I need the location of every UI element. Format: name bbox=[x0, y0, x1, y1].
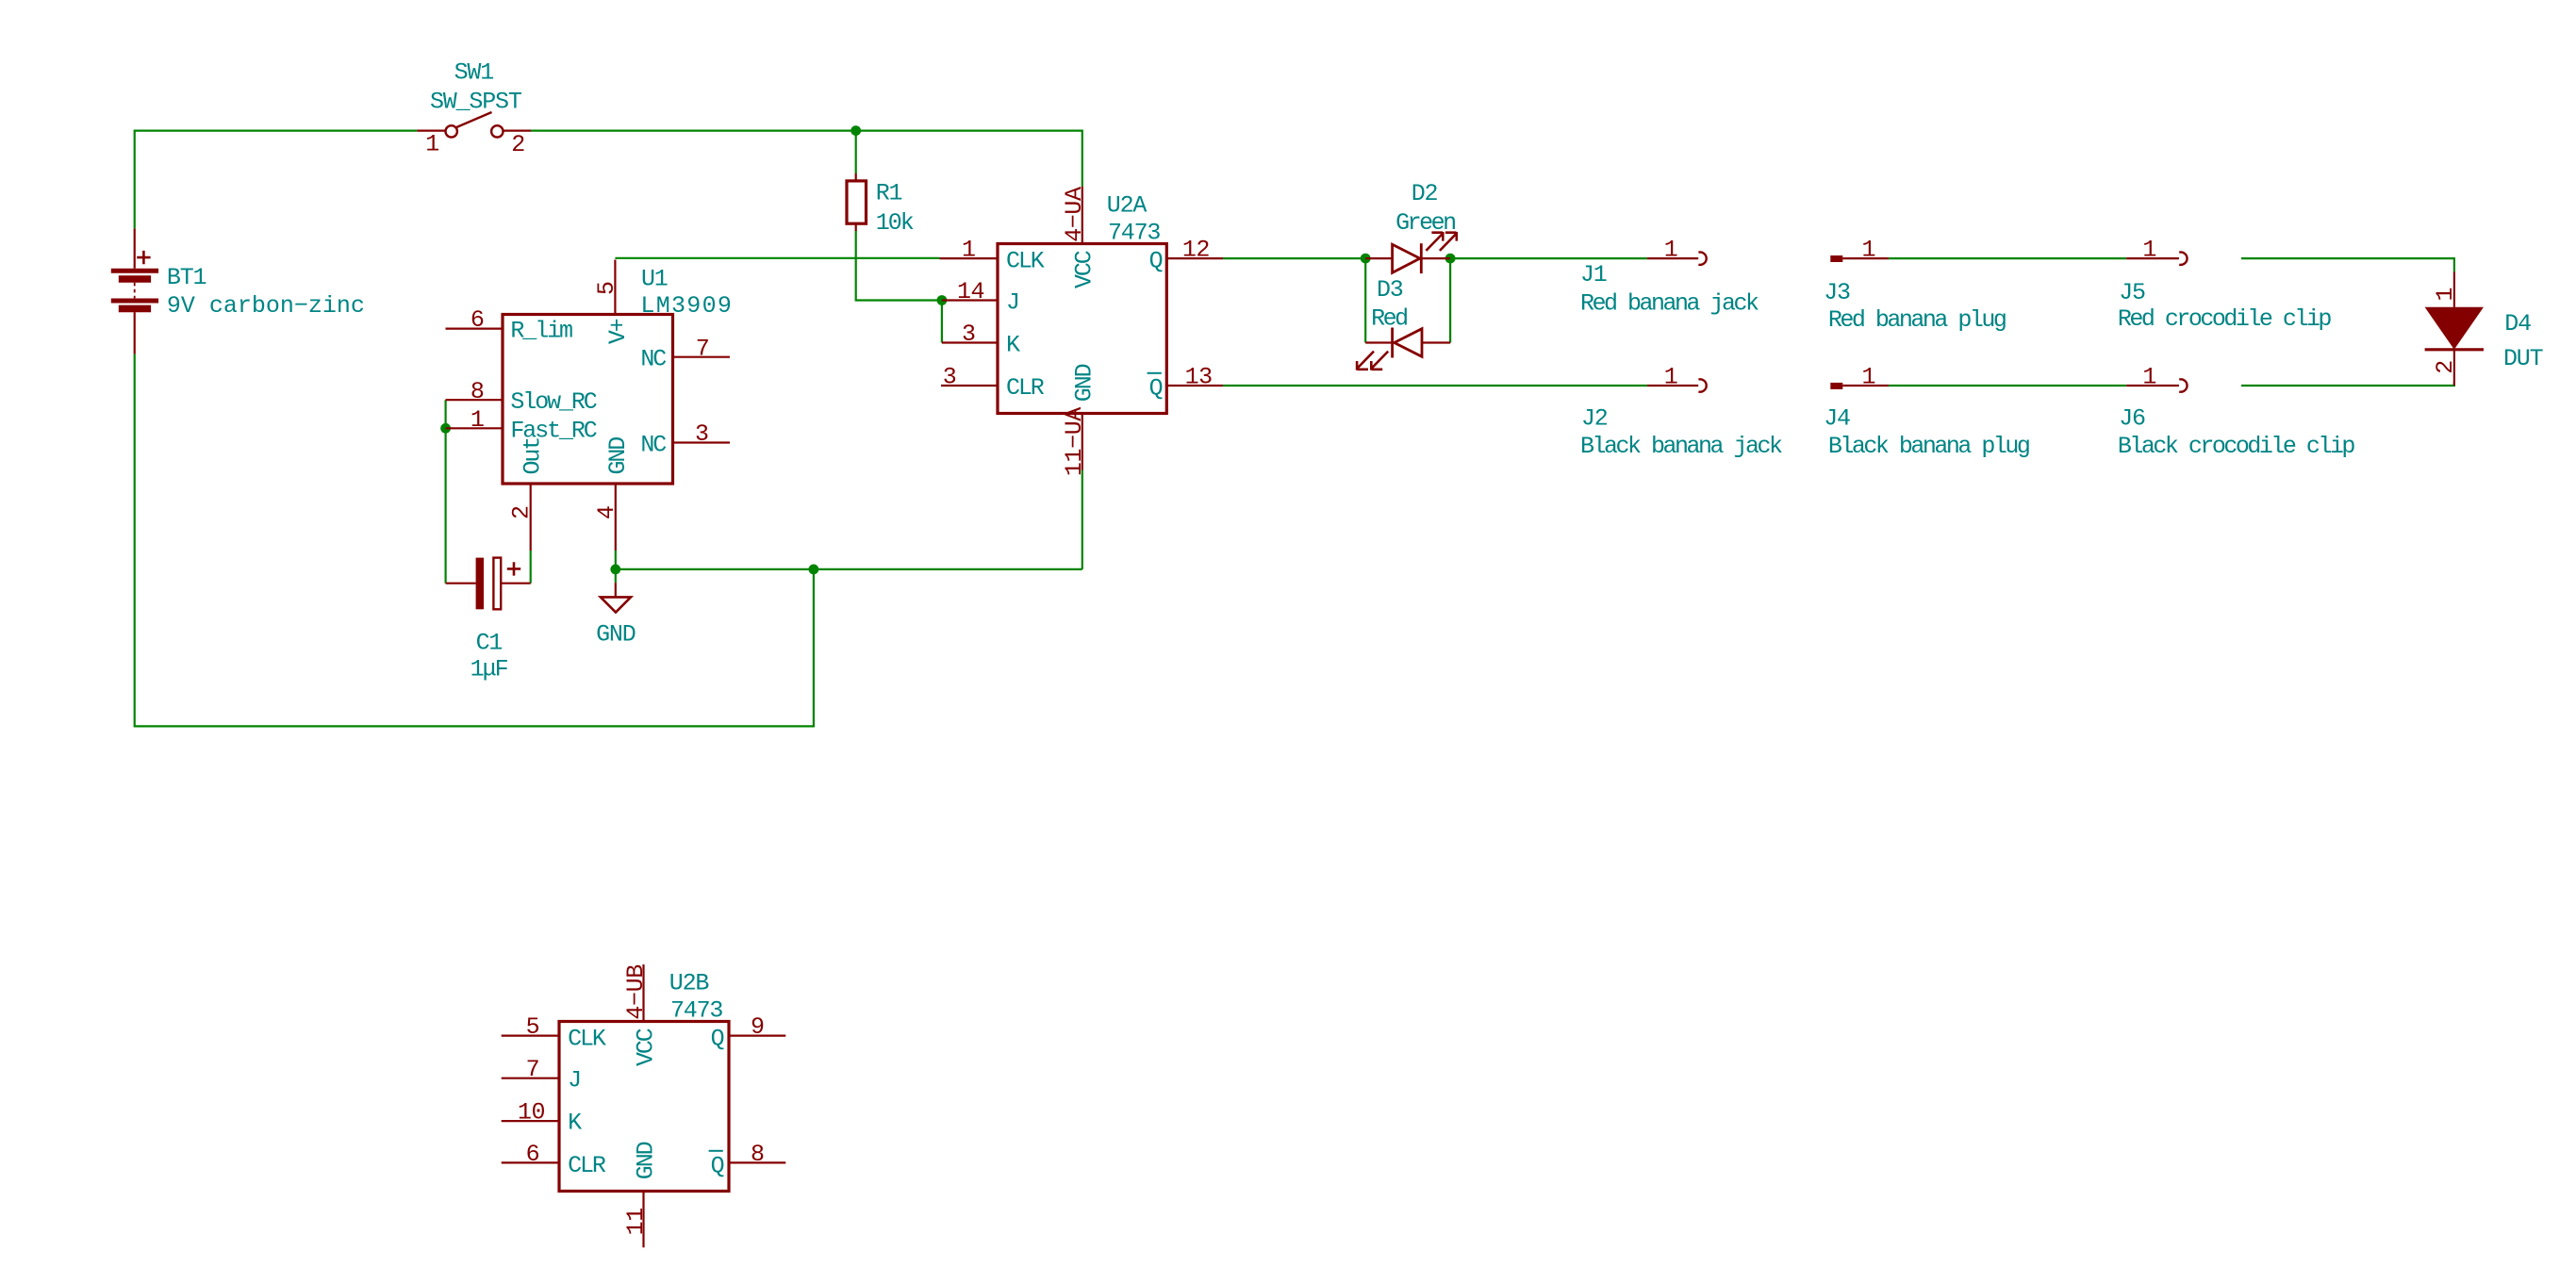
svg-text:7: 7 bbox=[526, 1056, 540, 1083]
svg-text:8: 8 bbox=[751, 1141, 765, 1168]
svg-text:J5: J5 bbox=[2119, 279, 2145, 306]
svg-text:Red: Red bbox=[1371, 305, 1407, 333]
wire U1 pin 2 to C1 bbox=[530, 551, 532, 584]
junction U1 Fast_RC node bbox=[440, 423, 451, 434]
svg-text:Q: Q bbox=[1149, 247, 1163, 274]
svg-text:CLR: CLR bbox=[568, 1152, 606, 1179]
svg-text:CLK: CLK bbox=[568, 1025, 606, 1052]
node B (D2 cathode) bbox=[1445, 254, 1456, 264]
svg-text:3: 3 bbox=[695, 420, 709, 448]
svg-text:Black crocodile clip: Black crocodile clip bbox=[2118, 433, 2355, 460]
svg-text:J2: J2 bbox=[1581, 405, 1608, 433]
svg-text:D2: D2 bbox=[1412, 180, 1438, 207]
connector J2 Black banana jack bbox=[1647, 379, 1707, 391]
wire J6 mate to D4 cathode bbox=[2241, 382, 2454, 387]
wire junction to R1 top bbox=[855, 131, 857, 173]
svg-text:11: 11 bbox=[622, 1208, 650, 1235]
svg-text:Black banana jack: Black banana jack bbox=[1580, 433, 1782, 460]
svg-text:Red banana plug: Red banana plug bbox=[1828, 306, 2006, 334]
svg-text:D4: D4 bbox=[2504, 310, 2531, 337]
svg-text:CLK: CLK bbox=[1006, 247, 1045, 274]
svg-text:1: 1 bbox=[962, 237, 976, 264]
svg-text:6: 6 bbox=[471, 306, 485, 334]
svg-text:R1: R1 bbox=[876, 180, 902, 207]
svg-text:LM3909: LM3909 bbox=[640, 292, 733, 320]
wire U2A Q-bar to J2 bbox=[1223, 385, 1647, 387]
svg-text:4−UB: 4−UB bbox=[622, 964, 650, 1020]
svg-text:SW_SPST: SW_SPST bbox=[430, 89, 522, 116]
wire LED node B to J1 bbox=[1450, 257, 1647, 259]
U2B pin leads bbox=[502, 964, 786, 1247]
wire U1 pin 5 to U2A CLK bbox=[615, 257, 939, 259]
svg-text:6: 6 bbox=[526, 1141, 540, 1168]
svg-text:J: J bbox=[568, 1067, 580, 1094]
svg-text:GND: GND bbox=[596, 620, 636, 648]
svg-text:1μF: 1μF bbox=[471, 656, 508, 683]
junction U2A J pin node bbox=[937, 295, 948, 305]
wire U1 pin 4 to ground node bbox=[615, 551, 617, 583]
svg-text:Green: Green bbox=[1395, 209, 1455, 237]
svg-text:SW1: SW1 bbox=[454, 59, 494, 87]
svg-text:GND: GND bbox=[604, 437, 632, 475]
svg-text:1: 1 bbox=[2432, 288, 2459, 302]
U1 pin leads bbox=[446, 260, 731, 551]
svg-text:5: 5 bbox=[593, 281, 620, 295]
svg-text:K: K bbox=[1006, 332, 1020, 359]
svg-text:NC: NC bbox=[640, 346, 666, 373]
resistor R1 bbox=[847, 173, 867, 231]
LED D3 Red bbox=[1357, 328, 1450, 370]
svg-text:9: 9 bbox=[751, 1013, 765, 1041]
connector J1 Red banana jack bbox=[1647, 253, 1707, 265]
connector J5 Red crocodile clip bbox=[2126, 253, 2187, 265]
svg-text:R_lim: R_lim bbox=[510, 317, 572, 344]
svg-text:DUT: DUT bbox=[2503, 345, 2544, 372]
svg-text:Slow_RC: Slow_RC bbox=[510, 388, 596, 416]
svg-text:7473: 7473 bbox=[670, 997, 722, 1025]
svg-text:2: 2 bbox=[508, 505, 536, 519]
junction R1 top node bbox=[850, 125, 861, 136]
svg-text:NC: NC bbox=[640, 432, 666, 459]
svg-text:12: 12 bbox=[1182, 237, 1210, 264]
svg-text:7473: 7473 bbox=[1108, 220, 1160, 247]
wire J4 to J6 bbox=[1889, 385, 2126, 387]
svg-text:Q: Q bbox=[1149, 374, 1163, 402]
wire battery negative to ground rail bbox=[135, 354, 814, 727]
svg-text:CLR: CLR bbox=[1006, 374, 1045, 402]
wire node B down to D3 bbox=[1449, 258, 1451, 342]
IC U2B 7473 body bbox=[559, 1022, 729, 1192]
svg-text:1: 1 bbox=[2142, 364, 2156, 391]
svg-text:VCC: VCC bbox=[633, 1028, 660, 1066]
capacitor C1 polarized bbox=[446, 558, 531, 610]
connector J3 Red banana plug bbox=[1830, 255, 1889, 262]
svg-text:Q: Q bbox=[711, 1025, 724, 1052]
wire J3 to J5 bbox=[1889, 257, 2126, 259]
junction U1 GND node bbox=[610, 565, 620, 575]
svg-text:5: 5 bbox=[526, 1013, 540, 1041]
svg-text:1: 1 bbox=[425, 130, 439, 157]
svg-text:J: J bbox=[1006, 289, 1018, 317]
svg-text:2: 2 bbox=[511, 131, 525, 158]
svg-text:1: 1 bbox=[1664, 364, 1678, 391]
svg-text:J1: J1 bbox=[1580, 261, 1607, 288]
diode D4 DUT bbox=[2425, 271, 2484, 386]
wire U2A GND to ground rail bbox=[1082, 470, 1083, 569]
node A (Q / D2 anode) bbox=[1361, 254, 1371, 264]
svg-text:V+: V+ bbox=[604, 319, 632, 344]
battery BT1 bbox=[111, 228, 158, 354]
svg-text:J3: J3 bbox=[1824, 279, 1850, 306]
IC U2A 7473 body bbox=[998, 244, 1166, 414]
svg-text:BT1: BT1 bbox=[167, 264, 206, 291]
svg-text:1: 1 bbox=[471, 406, 485, 434]
svg-text:8: 8 bbox=[471, 378, 485, 405]
wire ground rail bbox=[616, 568, 1082, 570]
wire U2A pin J to pin K bbox=[941, 301, 943, 343]
svg-text:Red crocodile clip: Red crocodile clip bbox=[2118, 305, 2332, 333]
wire U2A Q to LED node A bbox=[1223, 257, 1365, 259]
svg-text:9V carbon−zinc: 9V carbon−zinc bbox=[167, 292, 365, 320]
ground GND symbol bbox=[601, 583, 631, 612]
svg-text:14: 14 bbox=[957, 278, 984, 305]
svg-text:1: 1 bbox=[1862, 364, 1876, 391]
svg-text:C1: C1 bbox=[476, 629, 503, 656]
wire C1 to U1 RC pins bbox=[445, 400, 447, 584]
svg-text:VCC: VCC bbox=[1071, 251, 1098, 288]
wire battery positive to switch SW1 pin 1 bbox=[135, 131, 418, 229]
svg-text:13: 13 bbox=[1185, 364, 1213, 391]
wire J5 mate to D4 anode bbox=[2241, 258, 2454, 271]
svg-text:3: 3 bbox=[962, 321, 976, 348]
svg-text:U2A: U2A bbox=[1107, 192, 1148, 220]
LED D2 Green bbox=[1365, 232, 1457, 273]
svg-text:1: 1 bbox=[2142, 237, 2156, 264]
junction ground rail / battery return bbox=[809, 565, 819, 575]
svg-text:U2B: U2B bbox=[669, 969, 710, 996]
svg-text:U1: U1 bbox=[641, 266, 668, 293]
svg-text:D3: D3 bbox=[1377, 276, 1403, 304]
svg-text:2: 2 bbox=[2432, 360, 2459, 374]
U2A pin leads bbox=[940, 187, 1224, 470]
svg-text:10: 10 bbox=[518, 1099, 545, 1127]
wire node A down to D3 bbox=[1364, 258, 1366, 342]
svg-text:4: 4 bbox=[593, 505, 620, 519]
svg-text:1: 1 bbox=[1862, 237, 1876, 264]
svg-text:GND: GND bbox=[633, 1142, 660, 1179]
switch SW1 bbox=[417, 112, 531, 138]
svg-text:Black banana plug: Black banana plug bbox=[1828, 433, 2029, 460]
svg-text:11−UA: 11−UA bbox=[1061, 407, 1088, 476]
svg-text:K: K bbox=[568, 1110, 582, 1137]
wire switch SW1 pin 2 to U2A VCC bbox=[531, 131, 1082, 187]
op-amp/IC U1 LM3909 body bbox=[503, 315, 673, 485]
svg-text:J6: J6 bbox=[2119, 405, 2145, 433]
svg-text:Out: Out bbox=[520, 438, 547, 475]
svg-text:1: 1 bbox=[1664, 237, 1678, 264]
connector J6 Black crocodile clip bbox=[2126, 379, 2187, 391]
connector J4 Black banana plug bbox=[1830, 383, 1889, 389]
svg-text:J4: J4 bbox=[1824, 405, 1850, 433]
svg-text:7: 7 bbox=[696, 335, 710, 362]
svg-text:3: 3 bbox=[943, 364, 957, 391]
svg-text:GND: GND bbox=[1071, 364, 1098, 402]
svg-text:10k: 10k bbox=[876, 209, 914, 237]
svg-text:Red banana jack: Red banana jack bbox=[1580, 290, 1759, 318]
svg-text:Q: Q bbox=[711, 1152, 724, 1179]
wire R1 bottom to U2A pin J bbox=[856, 231, 942, 301]
svg-text:4−UA: 4−UA bbox=[1061, 187, 1088, 242]
